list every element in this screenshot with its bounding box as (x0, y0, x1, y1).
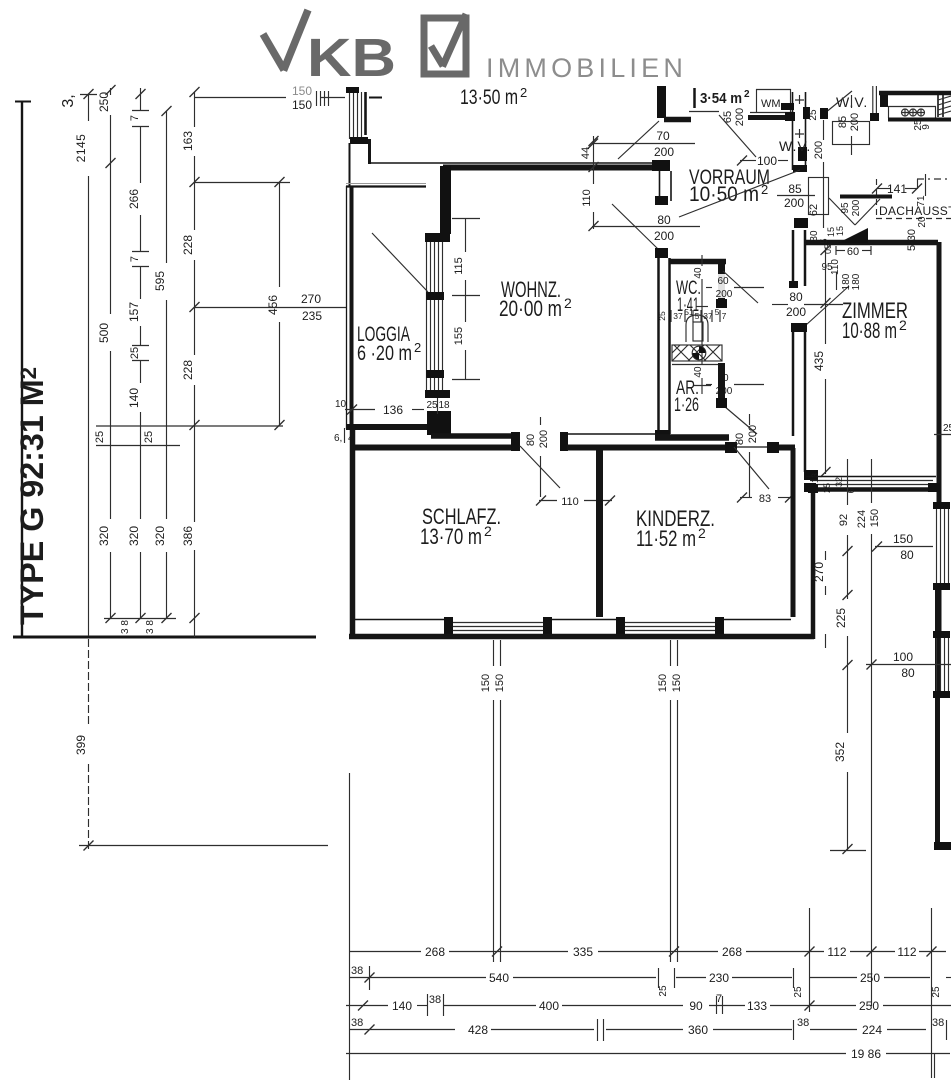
svg-text:80: 80 (901, 666, 915, 680)
svg-text:200: 200 (786, 305, 806, 319)
svg-text:270: 270 (812, 562, 826, 582)
divider wall schlafz/kinderz (596, 447, 603, 617)
row 1 y951: 268/335/268/112/112 (349, 945, 946, 959)
svg-text:38: 38 (351, 1017, 363, 1029)
svg-text:25: 25 (822, 483, 832, 493)
svg-text:200: 200 (813, 141, 825, 159)
loggia outer wall (346, 186, 348, 429)
svg-text:150: 150 (494, 674, 506, 692)
svg-text:13: 13 (810, 473, 820, 483)
svg-text:400: 400 (539, 999, 559, 1013)
logo V glyph (263, 10, 308, 71)
svg-text:2: 2 (484, 523, 492, 539)
svg-text:5: 5 (695, 311, 700, 321)
dim column 2145 (88, 94, 90, 121)
svg-text:80: 80 (900, 548, 914, 562)
svg-text:32: 32 (834, 477, 844, 487)
dim 141 (877, 188, 890, 190)
horizontal line y845 (79, 845, 328, 847)
dim 85/200 rotated pair with line (851, 95, 853, 108)
dim 110 schlafz (539, 500, 557, 502)
svg-text:110: 110 (561, 496, 579, 508)
svg-text:IMMOBILIEN: IMMOBILIEN (486, 53, 687, 83)
left outer wall (350, 424, 356, 639)
wall corner pieces (803, 107, 810, 119)
svg-text:3 8: 3 8 (145, 620, 156, 634)
loggia window jamb top (425, 233, 450, 242)
svg-text:112: 112 (897, 945, 916, 959)
svg-text:150: 150 (292, 84, 312, 98)
25/25 connectors (96, 425, 283, 427)
window top-left (room 13.50) (346, 87, 368, 144)
zimmer right wall middle (937, 590, 942, 634)
svg-text:163: 163 (181, 131, 195, 151)
svg-text:80: 80 (789, 290, 803, 304)
svg-text:2: 2 (564, 295, 572, 311)
WM box (748, 89, 793, 118)
svg-text:25: 25 (808, 109, 819, 121)
svg-text:250: 250 (859, 999, 879, 1013)
top wall right section (879, 91, 951, 96)
outer wall continuation left (349, 143, 351, 187)
hinge cross marks (795, 95, 804, 138)
svg-text:38: 38 (351, 965, 363, 977)
svg-text:90: 90 (689, 999, 703, 1013)
svg-text:60: 60 (847, 246, 859, 258)
diagonal near W.V.2 (825, 91, 852, 113)
ar bottom wall (655, 434, 729, 441)
loggia top dim line (194, 182, 290, 184)
door swing zimmer entry (679, 170, 800, 217)
loggia door swing (372, 233, 428, 292)
svg-text:456: 456 (266, 295, 280, 315)
svg-text:1·26: 1·26 (674, 395, 699, 416)
dim column D 163/228/228/386 (194, 92, 196, 127)
wc door dim 60/200 (713, 274, 734, 298)
wall pillar left of 70-door (657, 86, 666, 118)
svg-text:2145: 2145 (74, 134, 88, 163)
svg-text:150: 150 (893, 532, 913, 546)
svg-text:9: 9 (921, 124, 932, 130)
zimmer door swing (806, 286, 849, 325)
tick below kinderz corner (825, 634, 827, 648)
svg-text:140: 140 (127, 388, 141, 408)
svg-text:13·70 m: 13·70 m (420, 524, 482, 549)
dim line x847 with 225/352 (847, 459, 849, 505)
ar door dim 60/200 (713, 371, 734, 396)
jamb at wohnz top-right (652, 160, 670, 171)
jamb above wc (655, 248, 668, 258)
dim 80/200 kinderz door rotated (749, 414, 751, 425)
jambs schlafz door (511, 432, 520, 451)
svg-text:25: 25 (94, 431, 106, 443)
svg-text:38: 38 (429, 994, 441, 1006)
kinderz window (616, 617, 724, 635)
wohnz top wall thick (443, 165, 652, 171)
svg-text:428: 428 (468, 1023, 488, 1037)
svg-text:268: 268 (722, 945, 742, 959)
shaft hatched band (672, 345, 722, 365)
left wall of lower right room (811, 485, 816, 639)
dim 115/155 vertical (452, 218, 480, 380)
vertical helper lines (809, 908, 811, 1012)
svg-text:200: 200 (784, 196, 804, 210)
svg-text:85: 85 (788, 182, 802, 196)
svg-text:150: 150 (671, 674, 683, 692)
door triangle on zimmer top wall (838, 228, 868, 243)
dim 44 + 110 vertical (593, 136, 595, 184)
bottom inner thin lines (355, 619, 453, 621)
bottom outer wall (349, 634, 814, 640)
svg-text:6 ·20 m: 6 ·20 m (357, 342, 412, 365)
svg-text:60: 60 (717, 276, 729, 287)
svg-text:15: 15 (835, 226, 845, 236)
svg-text:112: 112 (827, 945, 846, 959)
top 150/150 dim line (194, 97, 286, 99)
wall from window down to wohnz top (368, 139, 371, 164)
schlafz window (444, 617, 552, 635)
svg-text:200: 200 (654, 229, 674, 243)
svg-text:W.V.: W.V. (779, 138, 811, 154)
shaft rectangle (833, 122, 870, 145)
svg-text:40: 40 (693, 267, 704, 279)
svg-text:10·50 m: 10·50 m (689, 183, 759, 206)
456 vertical dim (279, 182, 281, 287)
svg-text:235: 235 (302, 309, 322, 323)
svg-text:WM: WM (761, 98, 781, 110)
svg-text:399: 399 (74, 735, 88, 755)
zimmer top wall (804, 240, 938, 246)
wc door swing (723, 271, 758, 303)
svg-text:25: 25 (657, 311, 667, 321)
svg-text:270: 270 (301, 292, 321, 306)
svg-text:133: 133 (747, 999, 767, 1013)
svg-text:224: 224 (862, 1023, 882, 1037)
svg-text:25: 25 (931, 986, 942, 998)
svg-text:25: 25 (658, 985, 669, 997)
dim 40 rotated wc + center line (701, 255, 703, 266)
dim 100/80 (866, 664, 951, 666)
svg-text:25: 25 (426, 400, 438, 411)
kinderz door swing (734, 447, 769, 489)
meter box with circles (888, 106, 951, 120)
38/38 bottom connectors (104, 618, 176, 620)
svg-text:150: 150 (480, 674, 492, 692)
svg-text:44: 44 (580, 147, 592, 159)
svg-text:200: 200 (734, 108, 746, 126)
window band top right (870, 86, 879, 121)
svg-text:3·54 m: 3·54 m (700, 90, 742, 107)
bottom-right corner wall (934, 842, 951, 850)
ar door swing (724, 406, 757, 434)
dim 71 / 20 rotated (925, 174, 927, 196)
toilet (686, 315, 708, 342)
svg-text:2: 2 (744, 89, 750, 100)
chimney rect (809, 178, 829, 215)
svg-text:110: 110 (581, 189, 593, 207)
svg-text:225: 225 (834, 608, 848, 628)
window center dim lines schlafz (493, 640, 495, 666)
svg-text:320: 320 (153, 526, 167, 546)
svg-text:83: 83 (759, 493, 771, 505)
wall below window (427, 411, 451, 435)
svg-text:80: 80 (657, 213, 671, 227)
svg-text:11·52 m: 11·52 m (636, 526, 696, 551)
dim column B 7/266/7/157/25/140/25/320 (140, 88, 142, 111)
left boundary vertical of dim block (349, 773, 351, 1080)
svg-text:250: 250 (97, 92, 111, 112)
zimmer left wall upper (792, 230, 795, 286)
svg-text:70: 70 (656, 129, 670, 143)
svg-text:7: 7 (129, 115, 141, 121)
svg-text:37: 37 (673, 311, 683, 321)
svg-text:200: 200 (716, 289, 733, 300)
svg-text:266: 266 (127, 189, 141, 209)
svg-text:386: 386 (181, 526, 195, 546)
svg-text:13·50 m: 13·50 m (460, 86, 518, 109)
svg-text:230: 230 (709, 971, 729, 985)
svg-text:25: 25 (143, 431, 155, 443)
svg-text:224: 224 (856, 510, 868, 528)
wc top wall (669, 259, 726, 265)
svg-text:2: 2 (520, 85, 527, 100)
svg-text:150: 150 (869, 509, 881, 527)
svg-text:180: 180 (851, 273, 862, 290)
svg-text:92: 92 (838, 514, 850, 526)
dim 270 rotated (825, 551, 827, 560)
svg-text:38: 38 (797, 1017, 809, 1029)
svg-text:435: 435 (812, 351, 826, 371)
dim 435 vertical (825, 248, 827, 344)
top door wall (70 door) (664, 117, 691, 123)
wall block (880, 95, 888, 107)
svg-text:100: 100 (893, 650, 913, 664)
wc right wall upper (718, 264, 725, 301)
svg-text:19 86: 19 86 (851, 1047, 881, 1061)
right window 2 (933, 631, 950, 698)
svg-text:KB: KB (307, 28, 396, 88)
border line left (21, 101, 23, 638)
svg-text:540: 540 (489, 971, 509, 985)
wall stub left of 3.54 label (693, 88, 696, 108)
svg-text:7: 7 (129, 256, 141, 262)
svg-text:320: 320 (127, 526, 141, 546)
tick right of window (369, 97, 382, 99)
border top tick (15, 101, 31, 103)
door sill thin line (689, 111, 719, 113)
svg-text:7: 7 (722, 311, 727, 321)
ar right wall lower (718, 363, 725, 400)
loggia window jamb bottom (425, 390, 450, 398)
zimmer left wall with jamb (791, 323, 807, 332)
svg-text:157: 157 (127, 302, 141, 322)
wohnz top wall thin line (369, 162, 658, 164)
svg-text:335: 335 (573, 945, 593, 959)
svg-text:360: 360 (688, 1023, 708, 1037)
svg-text:500: 500 (97, 323, 111, 343)
svg-text:80: 80 (734, 433, 746, 445)
svg-text:2: 2 (899, 317, 907, 333)
svg-text:352: 352 (833, 742, 847, 762)
svg-text:5: 5 (819, 238, 829, 243)
svg-text:80: 80 (525, 434, 537, 446)
long dim line x871 (871, 459, 873, 503)
svg-text:320: 320 (97, 526, 111, 546)
svg-text:200: 200 (747, 425, 759, 443)
svg-text:18: 18 (438, 400, 450, 411)
svg-text:141: 141 (887, 182, 907, 196)
door swing C (wohnz entry) (612, 204, 658, 249)
row 3 y1006: 140/38/400/90/7/133/250 (346, 993, 951, 1016)
loggia window band (427, 242, 443, 390)
svg-text:150: 150 (657, 674, 669, 692)
thin line kinderz top inner (563, 433, 657, 435)
svg-text:TYPE G 92:31 M2: TYPE G 92:31 M2 (14, 367, 50, 625)
svg-text:136: 136 (383, 403, 403, 417)
svg-text:200: 200 (654, 145, 674, 159)
svg-text:25: 25 (793, 986, 804, 998)
dim 83 (740, 497, 752, 499)
door swing A (top 70 door) (618, 121, 659, 159)
svg-text:05: 05 (823, 244, 833, 254)
svg-text:140: 140 (392, 999, 412, 1013)
svg-text:228: 228 (181, 360, 195, 380)
logo checkmark (431, 14, 466, 67)
corner stub wohnz bottom-right (655, 430, 670, 438)
wohnz/corridor wall (657, 258, 660, 434)
zimmer bottom window band (804, 477, 940, 493)
dim 200 rotated on line (823, 120, 825, 140)
roof window V symbol (829, 197, 892, 226)
svg-text:62: 62 (808, 204, 820, 216)
row 2 y978: 38/540/230/250 with 25s (349, 965, 951, 998)
stairs top-right corner (938, 95, 951, 117)
kinderz top wall (567, 445, 726, 451)
399 dim line below (88, 639, 90, 726)
door swing (3.54 room door) (719, 115, 756, 157)
svg-text:10·88 m: 10·88 m (842, 318, 897, 343)
svg-text:2: 2 (414, 340, 421, 355)
svg-text:10: 10 (335, 399, 347, 410)
svg-text:5: 5 (715, 307, 720, 317)
dachausstieg dashed box (876, 179, 878, 218)
svg-text:W.V.: W.V. (836, 94, 868, 110)
loggia bottom wall (346, 424, 427, 430)
window center dim lines kinderz (670, 640, 672, 666)
wohnz left wall upper (440, 166, 451, 234)
svg-text:155: 155 (453, 327, 465, 345)
zimmer right wall upper (937, 242, 942, 505)
tiny dims row (657, 307, 727, 321)
jamb below 85 door (794, 218, 808, 228)
svg-text:25: 25 (943, 423, 951, 434)
svg-text:200: 200 (851, 199, 862, 216)
loggia top lines (346, 183, 426, 185)
right window 1 (933, 502, 950, 590)
svg-text:25: 25 (129, 347, 141, 359)
svg-text:95: 95 (821, 262, 833, 273)
svg-text:20: 20 (917, 216, 928, 228)
row 5 y1053: 19 86 total (346, 1047, 950, 1078)
border bottom line (13, 636, 316, 639)
row 4 y1030: 38/428/360/38/224/38 (349, 1017, 947, 1041)
svg-text:115: 115 (453, 257, 465, 275)
logo checkbox (424, 18, 466, 74)
hollow wall below 70 door (659, 171, 661, 199)
svg-text:5·30: 5·30 (906, 229, 918, 251)
270/235 dim line (194, 307, 346, 309)
dim 150/80 (875, 546, 933, 548)
svg-text:2: 2 (698, 525, 706, 541)
dim 80/200 schlafz door rotated (540, 417, 542, 425)
svg-text:250: 250 (860, 971, 880, 985)
svg-text:3 8: 3 8 (120, 620, 131, 634)
wohnz bottom wall (431, 433, 517, 439)
svg-text:95: 95 (840, 202, 851, 214)
svg-text:71: 71 (916, 195, 927, 207)
svg-text:150: 150 (292, 98, 312, 112)
svg-text:20·00 m: 20·00 m (499, 296, 562, 321)
kinderz right wall (791, 448, 796, 617)
svg-text:200: 200 (538, 430, 550, 448)
dim 100 (740, 160, 756, 162)
svg-text:38: 38 (932, 1017, 944, 1029)
svg-text:228: 228 (181, 235, 195, 255)
dim column C 595/320 (166, 111, 168, 263)
schlafz door swing (520, 446, 560, 488)
svg-text:268: 268 (425, 945, 445, 959)
svg-text:6,: 6, (334, 433, 342, 444)
svg-text:DACHAUSSTIEG: DACHAUSSTIEG (879, 204, 951, 218)
svg-text:40: 40 (693, 366, 704, 378)
svg-text:30: 30 (809, 230, 820, 242)
schlafz top wall (355, 445, 514, 451)
right wall lower (935, 590, 940, 849)
dim column A 250/320 (110, 88, 112, 95)
svg-text:595: 595 (153, 271, 167, 291)
svg-text:3,: 3, (60, 94, 77, 107)
vorraum right double wall (785, 92, 807, 172)
